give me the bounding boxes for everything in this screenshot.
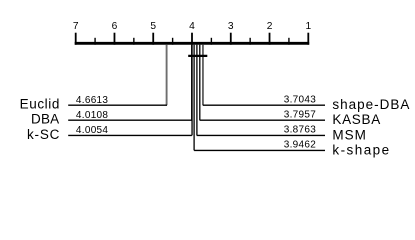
axis spine [75,42,310,45]
DBA row line [68,119,191,121]
major tick 3 [230,33,232,45]
KASBA row line [200,119,325,121]
minor tick 6.5 [94,38,96,45]
k-SC row line [68,134,192,136]
svg-text:3.9462: 3.9462 [284,140,317,151]
svg-text:4: 4 [189,21,195,32]
svg-text:4.0054: 4.0054 [76,125,109,136]
Euclid vertical line [166,45,168,105]
k-shape row line [194,149,325,151]
svg-text:k-shape: k-shape [332,142,390,157]
svg-text:k-SC: k-SC [27,127,60,142]
KASBA vertical line [199,45,201,121]
svg-text:2: 2 [267,21,273,32]
MSM row line [197,134,325,136]
svg-text:4.0108: 4.0108 [76,110,109,121]
Euclid row line [68,104,167,106]
svg-text:1: 1 [305,21,311,32]
svg-text:3: 3 [228,21,234,32]
svg-text:MSM: MSM [332,127,367,142]
svg-text:4.6613: 4.6613 [76,95,109,106]
major tick 4 [191,33,193,45]
minor tick 5.5 [133,38,135,45]
shape-DBA row line [203,104,325,106]
svg-text:7: 7 [73,21,79,32]
major tick 7 [75,33,77,45]
DBA vertical line [191,45,193,121]
k-shape vertical line [193,45,195,151]
svg-text:KASBA: KASBA [332,112,381,127]
svg-text:5: 5 [150,21,156,32]
svg-text:DBA: DBA [31,112,59,127]
clique bar [188,55,207,57]
k-SC vertical line [191,45,193,136]
MSM vertical line [196,45,198,136]
critical difference diagram [0,0,415,174]
major tick 6 [113,33,115,45]
major tick 5 [152,33,154,45]
major tick 2 [269,33,271,45]
svg-text:3.7957: 3.7957 [284,109,317,120]
svg-text:shape-DBA: shape-DBA [332,97,410,112]
shape-DBA vertical line [202,45,204,105]
major tick 1 [307,33,309,45]
svg-text:6: 6 [112,21,118,32]
svg-text:3.8763: 3.8763 [284,125,317,136]
minor tick 3.5 [210,38,212,45]
minor tick 2.5 [249,38,251,45]
svg-text:Euclid: Euclid [20,97,60,112]
svg-text:3.7043: 3.7043 [284,94,317,105]
minor tick 4.5 [172,38,174,45]
minor tick 1.5 [288,38,290,45]
